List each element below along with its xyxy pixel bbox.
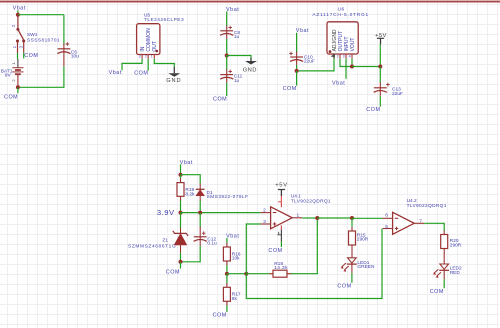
wire Vbat to C8 (226, 11, 228, 26)
svg-text:SW1: SW1 (27, 32, 38, 38)
wire 3.9V node to Z1 (180, 213, 182, 229)
svg-text:Vbat: Vbat (296, 28, 309, 34)
pin 5 stub U4.2 (383, 228, 393, 230)
power +5V (regulator out) (375, 33, 387, 44)
resistor R16 (223, 243, 241, 266)
wire node A to R18 (246, 273, 269, 275)
junction R19/D1 top (179, 173, 183, 177)
wire Vbat label to junction (17, 10, 19, 14)
svg-text:COM: COM (430, 289, 444, 295)
svg-text:2: 2 (11, 24, 16, 27)
wire R16 to midpoint (226, 265, 228, 274)
wire U4.1 output (302, 217, 317, 219)
svg-text:COM: COM (4, 95, 18, 101)
svg-text:TLV9022QDRQ1: TLV9022QDRQ1 (407, 203, 447, 209)
svg-text:1u: 1u (234, 78, 240, 84)
power +5V (U4.1) (275, 182, 288, 196)
svg-text:8k: 8k (232, 296, 238, 302)
junction battery bottom (16, 85, 20, 89)
svg-text:SMS3922-079LF: SMS3922-079LF (207, 194, 249, 200)
zener Z1 (128, 228, 188, 253)
wire junction to C13 (379, 67, 381, 83)
wire midpoint to R17 (226, 274, 228, 284)
pin 7 stub U4.2 (414, 222, 424, 224)
wire junction to C11 (226, 56, 228, 70)
svg-text:Vbat: Vbat (226, 233, 239, 239)
pin 3 stub U4.1 (261, 223, 271, 225)
svg-text:3.9V: 3.9V (157, 208, 175, 217)
junction divider midpoint (225, 272, 229, 276)
svg-text:14.3k: 14.3k (274, 265, 288, 271)
svg-text:2: 2 (263, 208, 266, 214)
svg-text:VOUT: VOUT (350, 38, 356, 52)
svg-text:0.1u: 0.1u (207, 241, 217, 247)
svg-text:290R: 290R (357, 237, 369, 243)
wire midpoint to node A (227, 273, 246, 275)
svg-text:2: 2 (11, 79, 16, 82)
svg-text:22uF: 22uF (304, 59, 315, 65)
wire battery bottom stub (17, 87, 19, 93)
svg-text:GND: GND (166, 78, 181, 84)
pin stubs U5 (142, 55, 154, 59)
wire C13 to COM (379, 96, 381, 107)
junction C10/ADJ (295, 69, 299, 73)
wire +5V to junction (379, 44, 381, 66)
svg-text:3: 3 (18, 45, 23, 48)
capacitor C8 (220, 26, 240, 41)
wire U5 IN to Vbat (122, 59, 142, 71)
ground GND (U5 out) (166, 67, 181, 84)
svg-text:4: 4 (349, 54, 351, 58)
junction R15 top (350, 216, 354, 220)
svg-text:Vbat: Vbat (332, 80, 345, 86)
svg-text:2: 2 (145, 55, 147, 59)
junction VOUT (350, 65, 354, 69)
wire junction to R19 (180, 175, 182, 179)
wire U6 VOUT down (351, 59, 353, 67)
junction 3.9V (D1/C12) (198, 211, 202, 215)
wire junction to COM (180, 262, 182, 269)
svg-text:5: 5 (385, 224, 388, 230)
svg-text:7: 7 (419, 218, 422, 224)
svg-text:Vbat: Vbat (226, 7, 239, 13)
wire R17 to COM (226, 305, 228, 312)
op-amp U4.2 (393, 198, 447, 234)
battery BAT1 (1, 59, 24, 87)
op-amp U4.1 (271, 194, 331, 229)
wire R18 to U4.1 output junction (291, 218, 318, 274)
svg-text:10u: 10u (71, 54, 79, 60)
wire Vbat to R16 (226, 238, 228, 244)
wire Vbat to C10 (296, 33, 298, 52)
svg-text:1: 1 (12, 45, 17, 48)
resistor R15 (349, 227, 369, 249)
svg-text:ADJ/GND: ADJ/GND (332, 29, 338, 51)
switch SW1 (11, 15, 60, 53)
svg-text:6: 6 (385, 213, 388, 219)
svg-text:3: 3 (263, 219, 266, 225)
wire C6 top vertical (63, 15, 65, 45)
wire Vbat to junction (180, 164, 182, 174)
svg-text:COM: COM (24, 53, 38, 59)
wire U4.2 output to R20 (424, 223, 444, 231)
wire switch left throw down (17, 53, 19, 59)
pin 8 power stub U4.1 (280, 196, 282, 207)
LED1 (341, 249, 375, 273)
svg-text:COM: COM (337, 284, 351, 290)
capacitor C6 (57, 42, 79, 66)
capacitor C11 (220, 69, 243, 84)
wire junction to U4.2 pin6 (352, 217, 383, 219)
pin 6 stub U4.2 (383, 217, 393, 219)
svg-text:3: 3 (343, 54, 345, 58)
resistor R17 (223, 283, 241, 306)
resistor R20 (441, 231, 462, 254)
wire U6 ADJ to COM node (297, 59, 334, 71)
svg-text:U4.2: U4.2 (407, 198, 417, 204)
svg-text:GREEN: GREEN (357, 264, 375, 270)
svg-text:+5V: +5V (275, 182, 288, 188)
pin stubs U6 (333, 54, 335, 59)
wire C10 to junction (296, 65, 298, 71)
capacitor C13 (374, 82, 403, 97)
wire node A up to U4.1 pin3 (246, 224, 261, 274)
wire Z1 to COM junction (180, 253, 182, 262)
IC U6 AZ1117 body (327, 22, 358, 54)
svg-text:Vbat: Vbat (180, 160, 193, 166)
svg-text:RED: RED (450, 270, 461, 276)
resistor R19 (177, 179, 195, 201)
wire U5 COMMON down (147, 59, 149, 71)
wire C10 junction to COM (296, 71, 298, 86)
svg-text:9V: 9V (5, 73, 12, 79)
svg-text:2: 2 (337, 54, 339, 58)
svg-text:COM: COM (166, 269, 180, 275)
wire junction to GND (227, 56, 251, 59)
wire junction down to R15 (351, 218, 353, 228)
svg-text:8.2k: 8.2k (185, 191, 195, 197)
svg-text:AZ1117CH-5.0TRG1: AZ1117CH-5.0TRG1 (312, 12, 369, 18)
svg-text:10k: 10k (232, 256, 240, 262)
svg-text:GND: GND (243, 68, 257, 74)
wire C12 to COM junction (181, 246, 201, 262)
svg-text:U6: U6 (338, 7, 344, 13)
junction battery top (16, 13, 20, 17)
svg-text:COM: COM (366, 107, 380, 113)
wire U6 INPUT to Vbat (345, 59, 347, 79)
svg-text:COM: COM (283, 86, 297, 92)
svg-text:1: 1 (11, 61, 16, 64)
wire top horizontal to C6 (18, 14, 64, 16)
svg-text:SSSS810701: SSSS810701 (27, 38, 60, 44)
svg-text:22uF: 22uF (392, 91, 403, 97)
junction Z1/C12 bottom (179, 260, 183, 264)
IC U5 TLE2426 body (137, 24, 160, 55)
LED2 (433, 253, 462, 280)
svg-text:1: 1 (151, 55, 153, 59)
wire 3.9V node to C12 (199, 213, 201, 227)
svg-text:OUT: OUT (152, 41, 158, 52)
junction 3.9V (R19) (179, 211, 183, 215)
svg-text:COM: COM (213, 312, 227, 318)
wire U5 OUT to GND (154, 59, 174, 67)
wire node A down to feedback rail (246, 229, 382, 299)
junction C8/C11 (225, 54, 229, 58)
diode D1 (196, 183, 249, 201)
pin 1 stub U4.1 (292, 217, 302, 219)
wire U6 OUTPUT to VOUT (340, 59, 352, 67)
junction node A (244, 272, 248, 276)
wire 3.9V rail (181, 212, 261, 214)
frame top border (0, 1, 500, 3)
resistor R18 (269, 261, 291, 277)
wire LED2 to COM (443, 279, 445, 288)
svg-text:COMMON: COMMON (146, 28, 152, 52)
svg-text:IN: IN (140, 46, 146, 51)
capacitor C12 (194, 227, 217, 247)
svg-text:3: 3 (139, 55, 141, 59)
svg-text:290R: 290R (450, 242, 462, 248)
svg-text:COM: COM (268, 248, 282, 254)
wire C8 to junction (226, 39, 228, 56)
wire R19 to 3.9V node (180, 201, 182, 213)
capacitor C10 (289, 52, 315, 65)
wire D1 to 3.9V node (199, 201, 201, 213)
wire VOUT to +5V branch (352, 66, 380, 68)
junction U4.1 out / R18 (315, 216, 319, 220)
wire switch right throw stub (23, 53, 25, 59)
pin 2 stub U4.1 (261, 212, 271, 214)
wire junction to D1 (181, 175, 201, 184)
svg-text:COM: COM (134, 71, 148, 77)
svg-text:1: 1 (297, 213, 300, 219)
svg-text:COM: COM (213, 97, 227, 103)
svg-text:Vbat: Vbat (109, 70, 122, 76)
wire output junction to R15 junction (317, 217, 352, 219)
wire LED1 to COM (351, 273, 353, 283)
junction +5V/C13 (378, 65, 382, 69)
pin 4 stub U4.1 to COM (280, 225, 282, 229)
svg-text:SZMMSZ4686T1G: SZMMSZ4686T1G (128, 243, 176, 249)
svg-text:Vbat: Vbat (13, 6, 26, 12)
svg-text:TLE2426CLPE3: TLE2426CLPE3 (144, 17, 184, 23)
wire C6 bottom (18, 66, 64, 87)
svg-text:Z1: Z1 (162, 238, 168, 244)
svg-text:TLV9022QDRQ1: TLV9022QDRQ1 (291, 198, 331, 204)
ground GND (C8/C11) (243, 58, 257, 74)
svg-text:1u: 1u (234, 34, 240, 40)
wire C11 to COM (226, 83, 228, 96)
